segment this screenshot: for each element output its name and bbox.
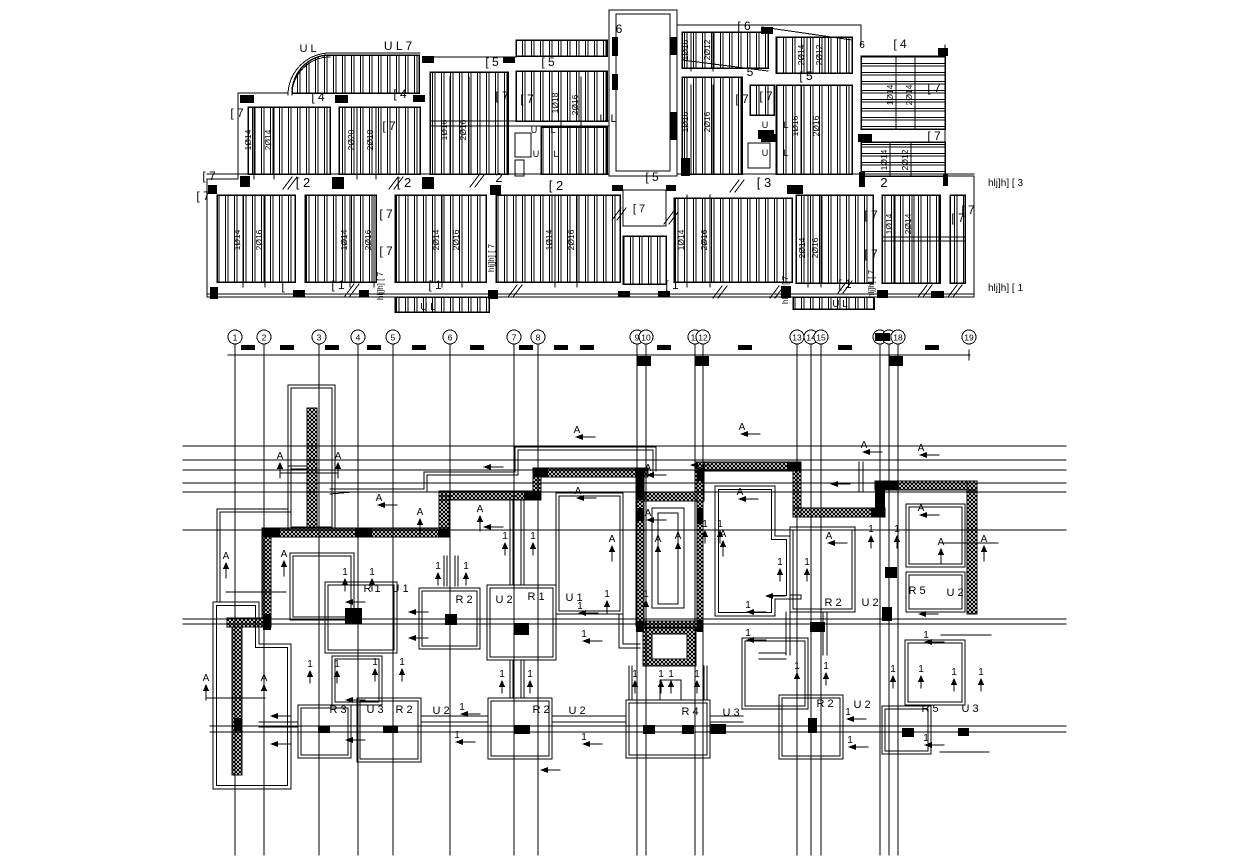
svg-text:U 2: U 2 <box>568 705 585 717</box>
svg-text:R 2: R 2 <box>455 594 472 606</box>
svg-text:hlj]h] [ 7: hlj]h] [ 7 <box>376 271 385 300</box>
stair protrusion left <box>395 297 489 312</box>
svg-text:U 3: U 3 <box>961 703 978 715</box>
corridor center <box>444 500 524 698</box>
svg-text:2Ø16: 2Ø16 <box>566 229 576 250</box>
arc balcony outer <box>288 53 330 95</box>
bar leader 1&#216;14 <box>242 195 244 287</box>
grid line 1 <box>228 330 242 855</box>
svg-text:2Ø12: 2Ø12 <box>900 149 910 170</box>
wall black cell <box>262 528 280 537</box>
svg-text:[ 7: [ 7 <box>202 169 216 183</box>
svg-text:L: L <box>553 149 558 159</box>
plan arrow <box>918 443 939 458</box>
svg-text:[ 7: [ 7 <box>382 119 396 133</box>
svg-text:U L: U L <box>599 113 616 125</box>
plan arrow <box>918 611 938 617</box>
svg-text:5: 5 <box>391 333 396 343</box>
svg-text:2Ø12: 2Ø12 <box>814 44 824 65</box>
slab panel strip 5 <box>516 40 607 56</box>
detail arrow 1 <box>918 664 924 688</box>
section arrow A <box>655 534 662 561</box>
svg-text:A: A <box>918 443 925 454</box>
stair landing black <box>758 130 774 139</box>
arrow link line <box>206 697 265 699</box>
column mark <box>859 172 865 187</box>
core wall black <box>636 621 644 632</box>
shear wall horizontal 5 <box>695 462 801 471</box>
core wall black <box>697 620 703 632</box>
header dash <box>412 345 426 350</box>
slab panel K <box>682 77 742 174</box>
outline top edge left <box>330 52 420 54</box>
bar leader 2&#216;20 <box>356 107 358 179</box>
svg-text:A: A <box>645 463 652 474</box>
svg-text:12: 12 <box>698 333 708 343</box>
plan arrow <box>270 741 290 747</box>
svg-text:1: 1 <box>502 531 508 542</box>
crack tick <box>470 175 484 187</box>
grid line 6 <box>443 330 457 855</box>
plan black mark <box>810 622 825 632</box>
plan black mark <box>710 724 726 734</box>
crack tick <box>948 285 962 297</box>
svg-text:4: 4 <box>356 333 361 343</box>
plan arrow <box>376 493 397 508</box>
svg-text:U 3: U 3 <box>722 707 739 719</box>
detail arrow 1 <box>527 669 533 693</box>
detail arrow 1 <box>951 667 957 691</box>
svg-text:A: A <box>223 551 230 562</box>
svg-text:2Ø14: 2Ø14 <box>903 213 913 234</box>
detail arrow 1 <box>794 661 800 685</box>
column mark <box>359 290 369 297</box>
detail arrow 1 <box>499 669 505 693</box>
svg-text:1Ø16: 1Ø16 <box>680 39 690 60</box>
svg-text:A: A <box>645 508 652 519</box>
plan arrow <box>830 481 850 487</box>
room bottom right <box>882 706 931 754</box>
svg-text:A: A <box>609 534 616 545</box>
svg-text:1: 1 <box>694 669 700 680</box>
svg-text:1: 1 <box>923 733 929 744</box>
svg-text:3: 3 <box>317 333 322 343</box>
bar leader 2&#216;16 <box>580 77 582 174</box>
room R2 east <box>790 527 855 612</box>
shear wall right vertical <box>967 481 977 614</box>
crack tick <box>770 286 784 298</box>
core stair well <box>652 508 684 608</box>
plan black mark <box>682 725 694 734</box>
svg-text:R 1: R 1 <box>527 591 544 603</box>
svg-text:1: 1 <box>978 667 984 678</box>
svg-text:2Ø14: 2Ø14 <box>263 129 273 150</box>
header dash <box>241 345 255 350</box>
bottom inner line <box>207 293 974 295</box>
svg-text:1: 1 <box>745 600 751 611</box>
left wing outline <box>213 602 291 789</box>
column mark <box>612 37 618 56</box>
shear wall step 2 <box>533 473 541 491</box>
detail arrow 1 <box>604 589 610 613</box>
plan arrow <box>459 702 480 717</box>
plan black mark <box>318 726 330 733</box>
shear wall step 1 <box>439 496 449 537</box>
svg-text:1: 1 <box>463 561 469 572</box>
grid line 7 <box>507 330 521 855</box>
svg-text:[ 7: [ 7 <box>864 208 878 222</box>
plan black mark <box>902 728 914 737</box>
bar leader 2&#216;16 <box>468 77 470 174</box>
bar leader 2&#216;14 <box>807 195 809 287</box>
detail arrow 1 <box>643 589 649 613</box>
svg-text:[ 7: [ 7 <box>927 129 941 143</box>
balcony stepped outline 2 <box>330 450 653 494</box>
bar leader 2&#216;16 <box>461 195 463 287</box>
core wall black <box>697 468 703 481</box>
shear wall left vertical <box>232 627 242 775</box>
detail arrow 1 <box>777 557 783 581</box>
svg-text:U L: U L <box>420 302 436 313</box>
outline shaft top link <box>677 24 861 26</box>
column mark <box>422 56 434 63</box>
outline near 860 <box>859 462 863 492</box>
svg-text:U: U <box>762 120 769 130</box>
svg-text:[ 5: [ 5 <box>485 55 499 69</box>
shear wall tower <box>307 408 317 528</box>
header dash <box>280 345 294 350</box>
slab panel P <box>217 195 295 282</box>
svg-text:2Ø20: 2Ø20 <box>346 129 356 150</box>
column mark <box>240 176 250 187</box>
shear wall black core 2 <box>875 481 885 517</box>
svg-text:6: 6 <box>859 40 865 51</box>
column mark <box>503 57 515 63</box>
crack tick <box>713 286 727 298</box>
svg-text:[ 2: [ 2 <box>549 178 563 193</box>
svg-text:A: A <box>981 534 988 545</box>
arrow link line <box>226 591 286 593</box>
slant line I <box>682 60 768 71</box>
outline top beam line <box>238 92 288 94</box>
detail arrow 1 <box>399 657 405 681</box>
detail arrow 1 <box>632 669 638 693</box>
section arrow A <box>261 673 268 700</box>
column mark <box>422 177 434 189</box>
bar leader 2&#216;16 <box>709 195 711 287</box>
svg-text:U 3: U 3 <box>366 704 383 716</box>
room bottom R2 <box>488 698 552 759</box>
svg-text:[ 7: [ 7 <box>759 89 773 103</box>
svg-text:1: 1 <box>372 657 378 668</box>
plan arrow <box>847 735 868 750</box>
svg-text:2Ø16: 2Ø16 <box>458 119 468 140</box>
column mark <box>335 95 348 103</box>
header dash <box>554 345 568 350</box>
svg-text:10: 10 <box>641 333 651 343</box>
wall black cell <box>234 718 242 731</box>
stair box 1 <box>515 133 531 157</box>
slab panel L upper <box>750 85 774 115</box>
corridor band <box>259 716 743 727</box>
plan arrow <box>454 730 475 745</box>
floor line 5 <box>183 491 1066 493</box>
svg-text:U L 7: U L 7 <box>384 39 413 53</box>
stair box 3 <box>748 143 770 168</box>
column mark <box>931 291 944 298</box>
svg-text:1: 1 <box>668 669 674 680</box>
core wall black <box>697 508 703 524</box>
column mark <box>332 177 344 189</box>
svg-text:2Ø16: 2Ø16 <box>363 229 373 250</box>
shear wall horizontal 2 <box>439 491 541 500</box>
floor line 10 <box>941 634 991 636</box>
svg-text:U 2: U 2 <box>432 705 449 717</box>
svg-text:L: L <box>550 125 555 135</box>
column mark <box>612 74 618 90</box>
svg-text:A: A <box>575 486 582 497</box>
svg-text:[ 4: [ 4 <box>393 87 407 101</box>
svg-text:R 5: R 5 <box>921 703 938 715</box>
outline left upper edge <box>237 93 239 179</box>
bar leader 1&#216;14 <box>349 195 351 287</box>
svg-text:[ 1: [ 1 <box>331 278 345 292</box>
plan black mark <box>345 608 362 624</box>
detail arrow 1 <box>868 524 874 548</box>
outline step left <box>217 466 307 601</box>
svg-text:[ 7: [ 7 <box>961 203 975 217</box>
detail arrow 1 <box>530 531 536 555</box>
outline left edge <box>207 179 238 297</box>
svg-text:1: 1 <box>632 669 638 680</box>
plan arrow <box>345 697 365 703</box>
plan arrow <box>861 440 882 455</box>
plan arrow <box>923 733 944 748</box>
svg-text:2Ø16: 2Ø16 <box>570 94 580 115</box>
column mark <box>877 290 888 298</box>
svg-text:[ 7: [ 7 <box>864 247 878 261</box>
bar leader 1&#216;16 <box>690 32 692 71</box>
column mark <box>943 174 948 186</box>
column mark <box>761 27 773 34</box>
header dash <box>367 345 381 350</box>
section arrow A <box>223 551 230 578</box>
wall black cell <box>263 614 271 630</box>
outline right top edge <box>860 25 862 45</box>
svg-text:1: 1 <box>334 659 340 670</box>
slab panel V <box>796 195 873 283</box>
svg-text:1: 1 <box>951 667 957 678</box>
shear wall horizontal 7 <box>875 481 977 490</box>
detail arrow 1 <box>342 567 348 591</box>
plan arrow <box>826 531 847 546</box>
column mark <box>240 95 254 103</box>
room east of core <box>715 486 801 616</box>
svg-text:2: 2 <box>495 170 502 185</box>
svg-text:2Ø16: 2Ø16 <box>810 237 820 258</box>
wall black cell <box>533 468 548 477</box>
plan arrow <box>690 462 710 468</box>
grid line 10 <box>639 330 653 855</box>
section arrow A <box>281 549 288 576</box>
wall black cell <box>787 462 801 471</box>
shear wall horizontal 4 <box>636 492 704 501</box>
crack tick <box>838 281 852 293</box>
svg-text:A: A <box>477 504 484 515</box>
beam line W <box>882 236 965 238</box>
grid header line <box>228 354 970 356</box>
bar leader 2&#216;14 <box>273 107 275 179</box>
column mark <box>670 37 677 55</box>
svg-text:2Ø18: 2Ø18 <box>365 129 375 150</box>
svg-text:1: 1 <box>890 664 896 675</box>
passage above R3 <box>332 656 382 705</box>
room bottom right upper <box>905 640 965 705</box>
bar leader 2&#216;14 <box>806 37 808 73</box>
svg-text:[ 7: [ 7 <box>230 106 244 120</box>
core wall black <box>636 468 644 500</box>
plan arrow <box>745 628 766 643</box>
column mark <box>658 291 670 297</box>
svg-text:[ 7: [ 7 <box>633 203 645 215</box>
grid line 16 <box>873 330 887 855</box>
beam line E-G <box>430 120 610 122</box>
svg-text:A: A <box>826 531 833 542</box>
svg-text:A: A <box>574 425 581 436</box>
svg-text:A: A <box>203 673 210 684</box>
room center R2 <box>487 585 556 660</box>
detail arrow 1 <box>372 657 378 681</box>
floor line 4 <box>183 482 1066 484</box>
wall black cell <box>438 529 450 537</box>
svg-text:1: 1 <box>643 589 649 600</box>
room bottom R3 <box>298 705 351 758</box>
column mark <box>612 185 623 191</box>
shear wall step 4 <box>793 462 801 517</box>
svg-text:1: 1 <box>845 707 851 718</box>
svg-text:1Ø14: 1Ø14 <box>339 229 349 250</box>
column mark <box>781 286 791 298</box>
svg-text:15: 15 <box>816 333 826 343</box>
stair box 2 <box>515 160 524 176</box>
column mark <box>293 290 305 297</box>
floor line 3 <box>183 469 1066 471</box>
tower outline <box>288 385 335 530</box>
svg-text:1: 1 <box>581 629 587 640</box>
svg-text:2Ø14: 2Ø14 <box>796 44 806 65</box>
room center right <box>556 493 623 614</box>
svg-text:A: A <box>918 503 925 514</box>
header dash <box>925 345 939 350</box>
header block lower <box>637 356 651 366</box>
room R5 upper <box>906 504 965 567</box>
header dash <box>838 345 852 350</box>
column mark <box>670 112 677 140</box>
floor line 1 <box>183 445 1066 447</box>
slab panel U <box>674 198 792 282</box>
bar leader 1&#216;14 <box>889 142 891 176</box>
svg-text:A: A <box>655 534 662 545</box>
svg-text:2Ø14: 2Ø14 <box>431 229 441 250</box>
floor line 11 <box>210 725 1066 727</box>
column mark <box>666 185 676 191</box>
svg-text:A: A <box>277 451 284 462</box>
bar leader 2&#216;12 <box>910 142 912 176</box>
grid line 5 <box>386 330 400 855</box>
crack tick <box>664 212 678 224</box>
svg-text:A: A <box>737 487 744 498</box>
core box <box>643 627 696 666</box>
plan arrow <box>923 630 944 645</box>
floor line 8 <box>183 618 1066 620</box>
grid line 11 <box>688 330 702 855</box>
outline top edge mid <box>423 56 516 58</box>
svg-text:1Ø14: 1Ø14 <box>544 229 554 250</box>
slant line J <box>762 27 852 40</box>
slab panel D <box>339 107 420 174</box>
column mark <box>761 134 776 142</box>
detail arrow 1 <box>894 524 900 548</box>
svg-text:1Ø14: 1Ø14 <box>885 84 895 105</box>
plan arrow <box>577 601 598 616</box>
core wall left <box>636 468 644 626</box>
section arrow A <box>335 451 342 478</box>
detail arrow 1 <box>890 664 896 688</box>
section arrow A <box>675 531 682 558</box>
svg-text:2Ø16: 2Ø16 <box>811 115 821 136</box>
section arrow A <box>277 451 284 478</box>
svg-text:6: 6 <box>448 333 453 343</box>
shear wall step 3 <box>695 462 704 501</box>
svg-text:R 2: R 2 <box>532 704 549 716</box>
bar leader 1&#216;16 <box>800 85 802 174</box>
svg-text:1: 1 <box>823 661 829 672</box>
crack tick <box>283 177 297 189</box>
plan arrow <box>739 422 760 437</box>
svg-text:[ 7: [ 7 <box>379 244 393 258</box>
plan arrow <box>540 767 560 773</box>
plan black mark <box>885 567 897 578</box>
svg-text:2Ø14: 2Ø14 <box>797 237 807 258</box>
svg-text:[ 3: [ 3 <box>757 175 771 190</box>
grid line 4 <box>351 330 365 855</box>
header dash <box>325 345 339 350</box>
svg-text:[ 7: [ 7 <box>735 92 749 106</box>
bar leader 2&#216;14 <box>441 195 443 287</box>
bottom boundary <box>207 297 974 312</box>
plan arrow <box>483 524 503 530</box>
svg-text:[ 5: [ 5 <box>541 55 555 69</box>
section arrow A <box>720 529 727 556</box>
svg-text:1: 1 <box>868 524 874 535</box>
room U1 <box>419 588 480 649</box>
section arrow A <box>938 537 945 564</box>
svg-text:1: 1 <box>454 730 460 741</box>
svg-text:A: A <box>675 531 682 542</box>
svg-text:2Ø16: 2Ø16 <box>254 229 264 250</box>
shaft inner <box>616 14 670 171</box>
grid line 17 <box>882 330 896 855</box>
svg-text:U 2: U 2 <box>861 597 878 609</box>
slab panel R <box>395 195 486 282</box>
plan arrow <box>575 486 596 501</box>
svg-text:[ 7: [ 7 <box>495 89 509 103</box>
svg-text:1Ø16: 1Ø16 <box>790 115 800 136</box>
grid line 9 <box>630 330 644 855</box>
column mark <box>208 185 217 194</box>
header block lower <box>695 356 709 366</box>
slab panel O horizontal <box>861 142 945 176</box>
